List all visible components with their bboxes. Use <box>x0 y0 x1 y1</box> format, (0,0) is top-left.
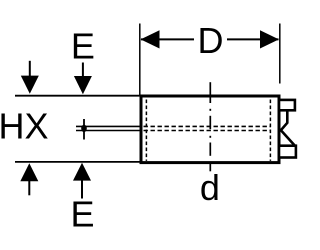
arrow E top-left head <box>21 76 39 94</box>
centerline solid top <box>209 82 211 103</box>
centerline dash 1 <box>209 116 211 129</box>
hidden line socket depth right <box>269 100 271 161</box>
svg-text:X: X <box>25 106 49 147</box>
centerline dot 1 <box>209 109 211 111</box>
centerline dash 2 <box>209 143 211 156</box>
dimension D line left segment <box>141 38 194 40</box>
arrow E bottom-left shaft <box>28 181 30 196</box>
hidden bore line upper <box>144 125 272 127</box>
svg-text:E: E <box>71 26 95 67</box>
arrow E top-left shaft <box>29 61 31 78</box>
arrow E top-right shaft <box>82 63 84 79</box>
dimension D line right segment <box>227 38 279 40</box>
svg-text:D: D <box>198 20 224 61</box>
svg-text:E: E <box>70 194 94 235</box>
top surface extension line <box>15 95 140 97</box>
hidden bore line lower <box>144 130 272 132</box>
dimension D extension line left <box>139 24 141 96</box>
hidden line socket depth left <box>145 100 147 161</box>
marking dot <box>81 125 87 132</box>
dimension D extension line right <box>279 24 281 84</box>
spigot top flange <box>279 100 295 110</box>
dimension D arrowhead left <box>141 30 160 48</box>
arrow E top-right head <box>74 76 92 94</box>
svg-text:d: d <box>200 167 220 208</box>
spigot bottom flange <box>279 146 296 158</box>
pipe line upper <box>76 125 141 127</box>
arrow E bottom-right shaft <box>81 180 83 199</box>
arrow E bottom-left head <box>20 163 38 181</box>
coupling body <box>141 96 279 163</box>
spigot groove profile <box>281 111 295 145</box>
pipe line lower <box>76 130 141 132</box>
marking tick <box>83 119 85 140</box>
arrow E bottom-right head <box>73 163 91 181</box>
svg-text:H: H <box>0 106 25 147</box>
centerline dot 2 <box>209 136 211 138</box>
dimension D arrowhead right <box>260 30 279 48</box>
centerline solid bottom <box>209 162 211 172</box>
bottom surface extension line <box>15 161 140 163</box>
